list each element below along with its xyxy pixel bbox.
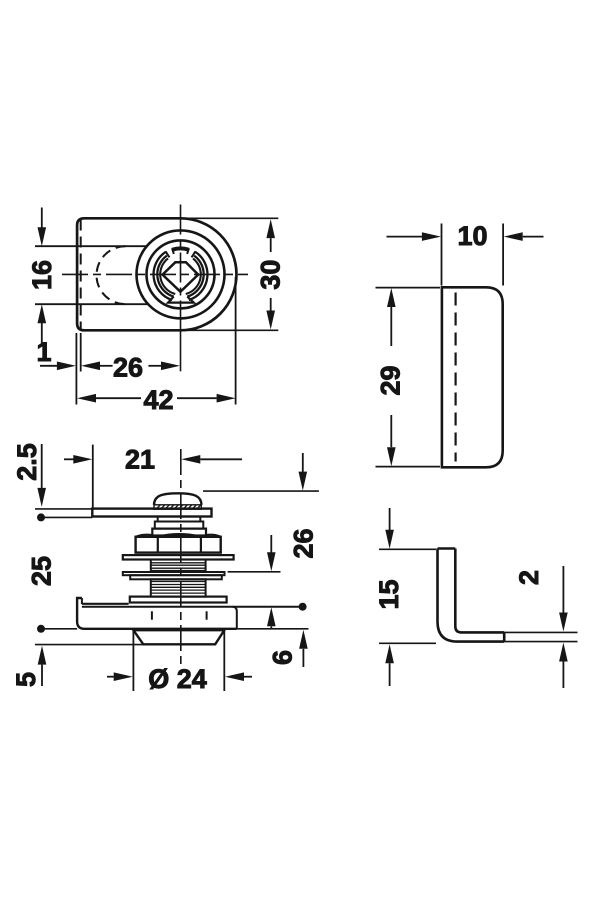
washer 2 lower strip [130,575,222,579]
bottom lug [168,297,194,303]
datum dot glass top right [299,603,307,611]
svg-text:2: 2 [514,570,544,585]
angle top extension line [379,548,436,550]
dim 42 left arrow [77,394,96,403]
dim 16 bottom arrow [41,322,43,343]
notch wall 123deg [166,251,170,257]
spindle tier 3 [152,529,206,536]
plate bottom extension line [376,466,441,468]
svg-text:10: 10 [457,221,487,251]
bottom edge extension line [181,329,279,331]
dim 21 left arrow [64,458,74,460]
dim 30 bottom arrow [270,298,272,311]
plate width extension left [441,224,443,286]
dim 10 left arrow [387,236,423,238]
dim 26 right arrow [148,365,161,367]
svg-text:1: 1 [36,337,51,367]
hidden lip edge (dashed) [80,220,82,330]
svg-text:42: 42 [143,385,173,415]
vertical centerline [180,205,182,332]
dim 6 lower arrow [299,630,308,649]
hatched base strip outline [154,505,201,509]
cap diameter extension left [132,630,134,691]
svg-text:2.5: 2.5 [12,443,42,481]
washer 3 (base flange) [130,597,227,603]
washer 1 [123,555,234,559]
dim 5 arrow [38,646,47,665]
bridge end wall 108deg [172,248,174,254]
bracket lip outer profile + glass bottom edge [77,598,237,629]
collar outer ring left arc [154,252,173,300]
dome top extension line [203,490,319,492]
extension line lip edge [80,333,82,372]
dim 21 right arrow [181,455,200,464]
dim 2.5 arrow [41,444,43,489]
lock body outline [77,218,180,330]
cam bottom extension with dot [41,516,92,518]
extension line body left edge [75,333,77,405]
axis centerline [180,449,182,668]
cam plate [92,509,211,517]
plate top extension line [376,287,441,289]
dim 26 bottom arrow [270,535,272,553]
cylinder outer circle [137,230,225,318]
svg-text:6: 6 [268,650,298,665]
nut facet lines [158,537,201,553]
angle bracket end edge [503,632,506,641]
plate hidden line (dashed) [455,293,457,462]
glass top edge [82,606,301,608]
bottom cap trapezoid [133,630,224,644]
collar top bridge arc [172,248,188,249]
vertical centerline extension to 26 dim [180,331,182,371]
extension line body right [235,277,237,405]
cap bottom extension line [35,644,143,646]
collar inner ring right arc [187,256,203,297]
dim 26 left arrow [81,362,100,371]
angle bracket top edge [438,547,456,550]
hatching [156,505,201,509]
cam end extension line [92,445,94,509]
svg-text:26: 26 [289,528,319,558]
dim 29 bottom arrow [390,415,392,447]
dim 29 top arrow [387,288,396,307]
angle bottom extension line [379,642,436,644]
leg bottom extension line [504,641,577,643]
washer2 top extension line [228,571,281,573]
dim 10 right arrow [504,232,523,241]
dim 2 top arrow [562,566,564,613]
cylinder flange circle [147,240,215,308]
nut top arcs [136,534,221,537]
thread section B [151,579,206,596]
collar inner ring left arc [157,256,173,297]
dim 1 arrow [40,365,57,367]
dome cap [154,493,202,505]
dim 6 upper arrow [267,607,276,626]
dim D24 right arrow [225,672,244,681]
horizontal centerline [62,273,248,275]
cam band top edge / 16 extension [35,245,147,247]
svg-text:16: 16 [27,260,57,290]
bridge end wall 72deg [187,248,189,254]
plate width extension right [502,224,504,286]
glass bottom extension with dot (left) [41,628,77,630]
dim 30 top arrow [266,219,275,238]
dim 2 bottom arrow [559,643,568,662]
dim D24 left arrow [107,676,114,678]
cap diameter extension right [223,630,225,691]
hex nut body [136,537,221,553]
collar innermost left arc [160,258,175,294]
svg-text:29: 29 [376,365,406,395]
hidden cam nose (dashed arc) [97,246,126,304]
svg-text:25: 25 [27,556,57,586]
notch wall 57deg [192,251,196,257]
spindle tier 1 [158,517,201,522]
cam band bottom edge / 16 extension [35,303,148,305]
dim 42 right arrow [177,397,217,399]
mounting plate outline [442,287,503,467]
svg-text:Ø 24: Ø 24 [148,664,207,694]
svg-text:30: 30 [255,260,285,290]
body right semicircular end [181,218,237,330]
dim 16 top arrow [41,208,43,229]
spindle tier 2 [155,522,204,529]
square spindle hole (diamond) [163,262,199,292]
svg-text:5: 5 [11,672,41,687]
dim 15 top arrow [389,508,391,530]
svg-text:26: 26 [113,353,143,383]
glass hole tick left [151,611,153,619]
glass right edge [233,607,237,629]
washer 2 upper strip [123,572,225,575]
dim 26 top arrow [302,453,304,472]
thread section A [151,560,206,573]
bracket top leg edge [82,603,129,605]
dim 15 bottom arrow [385,644,394,663]
top edge extension line [181,217,279,219]
svg-text:21: 21 [125,445,155,475]
collar innermost right arc [186,258,201,294]
glass hole tick right [206,611,208,619]
angle bracket inner profile [455,549,504,633]
leg top extension line [504,631,577,633]
svg-text:15: 15 [374,579,404,609]
angle bracket outer profile [438,549,505,642]
bracket lip inner edge [81,598,83,604]
glass bottom extension line [237,628,309,630]
collar outer ring right arc [189,252,208,300]
cam top extension line [35,508,92,510]
